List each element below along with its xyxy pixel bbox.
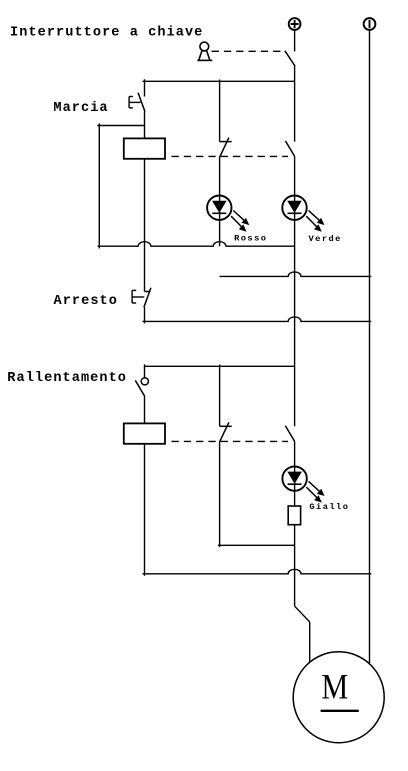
svg-text:Rallentamento: Rallentamento bbox=[7, 371, 127, 386]
LED Giallo bbox=[282, 466, 324, 506]
wire below K2 bbox=[144, 444, 146, 576]
wire D column upper bbox=[294, 81, 296, 141]
wire C column upper bbox=[219, 80, 221, 142]
relay coil K1 bbox=[124, 138, 165, 158]
key switch S1 (NO) bbox=[285, 30, 295, 81]
wire bus4 with hop at D bbox=[220, 272, 372, 277]
LED Verde bbox=[282, 196, 324, 367]
svg-text:Giallo: Giallo bbox=[309, 502, 349, 512]
LED Rosso bbox=[207, 196, 249, 247]
wire below K1 bbox=[144, 159, 146, 292]
terminal 0 (neutral) bbox=[364, 18, 376, 30]
wire bus1 top bbox=[143, 80, 295, 82]
wire left loop vertical bbox=[98, 124, 100, 249]
svg-text:Arresto: Arresto bbox=[54, 294, 118, 309]
right rail bbox=[369, 30, 371, 663]
relay coil K2 bbox=[124, 423, 165, 443]
wire bus5 with hop at D bbox=[143, 317, 372, 322]
pushbutton Marcia (NO) bbox=[129, 79, 145, 138]
dashed actuation link key to switch S1 bbox=[212, 50, 281, 52]
wire D column lower bbox=[294, 366, 296, 426]
pushbutton Arresto (NC) bbox=[132, 288, 151, 324]
wire bus6 bbox=[145, 365, 295, 367]
svg-text:M: M bbox=[321, 667, 348, 707]
svg-text:Verde: Verde bbox=[309, 234, 342, 244]
relay contact K1 NO (right) bbox=[285, 141, 294, 196]
wire self-hold horizontal bbox=[97, 125, 144, 127]
svg-text:Marcia: Marcia bbox=[53, 101, 108, 116]
svg-text:Interruttore a chiave: Interruttore a chiave bbox=[10, 26, 203, 41]
svg-text:Rosso: Rosso bbox=[234, 233, 267, 243]
wire C column lower bbox=[219, 365, 221, 427]
relay contact K2 NC (middle lower) bbox=[220, 422, 232, 547]
relay contact K2 NO (right lower) bbox=[285, 426, 294, 467]
wire motor jog bbox=[295, 606, 310, 662]
dashed actuation link K1 bbox=[172, 155, 289, 157]
switch Rallentamento (limit, NO) bbox=[135, 364, 148, 423]
dashed actuation link K2 bbox=[172, 440, 289, 442]
resistor R1 bbox=[288, 506, 300, 525]
relay contact K1 NC (middle) bbox=[220, 138, 232, 196]
wire bus7 with hop at D bbox=[143, 569, 372, 574]
wire below resistor bbox=[294, 525, 296, 607]
key symbol bbox=[197, 42, 212, 60]
motor M1 bbox=[293, 652, 384, 743]
wire connector C to D bbox=[218, 544, 295, 546]
wire bus2 with hops at B and C bbox=[98, 242, 295, 247]
terminal + (positive supply) bbox=[289, 18, 301, 30]
